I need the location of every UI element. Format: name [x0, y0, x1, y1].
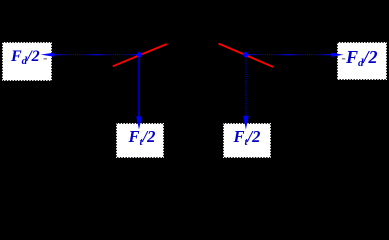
arrowhead right: [331, 53, 343, 57]
rafter right (red): [219, 44, 274, 67]
border box Fd/2 left: [3, 43, 52, 81]
node left: [136, 51, 143, 58]
rafter left (red): [113, 44, 167, 66]
node right: [242, 51, 249, 58]
border box Ft/2 right: [224, 124, 271, 158]
wire dotted horizontal right (to Fd/2 right): [246, 54, 332, 56]
label Fd/2 left: [11, 49, 40, 65]
box Ft/2 right: [223, 123, 271, 158]
box Ft/2 left: [116, 123, 164, 158]
border box Fd/2 right: [338, 43, 387, 80]
arrowhead left: [41, 53, 55, 57]
wire dotted horizontal left (to Fd/2 left): [54, 54, 139, 56]
label Fd/2 right: [346, 49, 378, 65]
label Ft/2 right: [234, 129, 261, 145]
box Fd/2 left: [2, 42, 52, 81]
wire solid vertical left (to Ft/2 left): [138, 55, 140, 117]
label Ft/2 left: [129, 129, 156, 145]
arrowhead down left: [136, 116, 142, 129]
box Fd/2 right: [337, 42, 387, 80]
gray tick left box: [44, 58, 48, 60]
arrowhead down right: [243, 116, 249, 130]
border box Ft/2 left: [117, 124, 164, 158]
gray tick right box: [342, 58, 346, 60]
wire dotted vertical right (to Ft/2 right): [245, 55, 247, 117]
